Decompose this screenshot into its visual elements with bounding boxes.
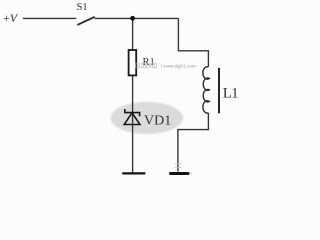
resistor R1 bbox=[129, 50, 155, 75]
wire bbox=[178, 113, 209, 172]
svg-text:R1: R1 bbox=[143, 57, 155, 68]
junction node bbox=[130, 16, 135, 21]
watermark text bbox=[136, 64, 196, 70]
wire (middle stem) bbox=[132, 18, 134, 172]
svg-text:VD1: VD1 bbox=[144, 114, 171, 129]
wire bbox=[23, 17, 76, 19]
svg-text:L1: L1 bbox=[223, 85, 238, 101]
ground bbox=[169, 164, 192, 175]
svg-text:+V: +V bbox=[3, 11, 19, 25]
wire bbox=[178, 18, 208, 67]
switch S1 bbox=[77, 2, 95, 25]
zener diode VD1 bbox=[124, 109, 140, 125]
terminal bar (middle branch) bbox=[122, 172, 146, 174]
wire bbox=[95, 17, 179, 19]
inductor L1 bbox=[203, 67, 238, 114]
svg-text:S1: S1 bbox=[77, 2, 88, 13]
svg-text:| www.dg91.com: | www.dg91.com bbox=[161, 64, 196, 70]
